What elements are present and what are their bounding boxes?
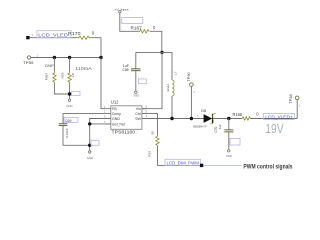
svg-text:GND: GND [112, 117, 120, 121]
svg-text:110mA: 110mA [75, 66, 92, 71]
net label LCD_VLED- [37, 31, 71, 39]
wire [31, 57, 101, 59]
IC U12 TPS61160 [111, 100, 142, 135]
capacitor C70 [214, 119, 234, 150]
svg-text:Gnd_Pad: Gnd_Pad [112, 122, 125, 126]
svg-text:L7: L7 [173, 71, 177, 75]
node LCD_VLED- connection square [26, 36, 29, 39]
IC pins left [104, 106, 125, 127]
svg-text:Vin: Vin [136, 107, 141, 111]
resistor R168 [233, 112, 260, 121]
resistor R167 [131, 25, 157, 33]
net label box (empty) [230, 138, 240, 145]
resistor R23 [60, 72, 75, 83]
test point TP90 [187, 72, 196, 94]
svg-text:5: 5 [146, 110, 148, 113]
wire [213, 118, 241, 120]
resistor R24 [148, 131, 160, 157]
wire [190, 86, 192, 118]
svg-text:DNP: DNP [45, 64, 54, 68]
junction [170, 117, 173, 120]
svg-text:0: 0 [153, 25, 156, 30]
node LCD_DIM_PWM square [200, 164, 203, 167]
diode D8 [193, 109, 216, 128]
svg-text:R367: R367 [45, 73, 49, 81]
ground [226, 150, 232, 159]
svg-text:R167: R167 [131, 25, 143, 30]
ground [87, 151, 93, 160]
junction [99, 56, 102, 59]
resistor R367 [45, 64, 57, 83]
svg-text:B0530W-7-F: B0530W-7-F [193, 124, 207, 128]
svg-text:19V: 19V [265, 122, 284, 136]
svg-text:Ctrl: Ctrl [135, 112, 141, 116]
svg-text:LCD_VLED-: LCD_VLED- [38, 33, 70, 39]
capacitor C68 [122, 64, 140, 72]
svg-text:GND: GND [87, 156, 93, 160]
junction [53, 56, 56, 59]
svg-text:TP58: TP58 [289, 94, 293, 104]
svg-text:C69: C69 [65, 119, 71, 123]
svg-text:C70: C70 [214, 126, 218, 132]
wire [136, 52, 162, 91]
wire GND/Gnd_Pad [90, 119, 111, 151]
svg-text:0: 0 [92, 31, 95, 36]
ground [133, 91, 139, 97]
svg-text:GND: GND [66, 104, 72, 108]
svg-text:4: 4 [146, 115, 148, 118]
svg-text:TP90: TP90 [187, 72, 191, 82]
resistor R170 [68, 31, 95, 40]
svg-text:PWM control signals: PWM control signals [243, 164, 293, 171]
wire Vin [142, 52, 162, 108]
svg-text:+: + [197, 113, 199, 117]
svg-text:GND: GND [133, 93, 139, 97]
svg-text:1: 1 [193, 91, 195, 94]
capacitor C69 [59, 117, 78, 137]
svg-text:R168: R168 [233, 112, 243, 117]
net label box (empty) [91, 140, 99, 145]
IC pins right [135, 105, 147, 121]
wire Ctrl [142, 114, 200, 166]
net label box (empty) [122, 18, 143, 24]
svg-text:Comp: Comp [112, 112, 121, 116]
svg-text:R24: R24 [148, 151, 152, 157]
wire [251, 100, 298, 119]
ground [66, 99, 72, 108]
wire Comp [63, 114, 106, 146]
svg-text:0: 0 [256, 112, 259, 117]
leader line [203, 164, 241, 166]
junction [227, 117, 230, 120]
junction [160, 51, 163, 54]
svg-text:R23: R23 [60, 72, 64, 78]
svg-text:6: 6 [146, 105, 148, 108]
power +V_Input [114, 8, 128, 13]
test point TP58 [289, 94, 301, 107]
wire [162, 52, 172, 118]
junction [68, 56, 71, 59]
svg-text:1: 1 [298, 104, 300, 107]
net label LCD_VLED+ [264, 114, 295, 121]
svg-text:1.8: 1.8 [71, 73, 75, 78]
svg-text:FB: FB [112, 107, 117, 111]
svg-text:TPS61160: TPS61160 [112, 130, 136, 135]
wire [120, 13, 162, 53]
svg-text:TP59: TP59 [23, 61, 34, 65]
test point TP59 [23, 55, 39, 66]
svg-text:50: 50 [150, 131, 154, 135]
net label LCD_DIM_PWM [165, 159, 200, 165]
svg-text:C68: C68 [122, 68, 128, 72]
wire FB [101, 58, 106, 109]
svg-text:22uH: 22uH [166, 84, 170, 91]
wire [54, 58, 69, 100]
svg-text:0.22uF: 0.22uF [65, 128, 69, 138]
junction [68, 92, 71, 95]
svg-text:LCD_VLED+: LCD_VLED+ [265, 114, 293, 120]
net label box (empty) [72, 92, 81, 96]
wire [30, 38, 101, 58]
svg-text:R170: R170 [68, 31, 81, 36]
svg-text:D8: D8 [201, 109, 206, 113]
wire SW [142, 118, 204, 120]
svg-text:U12: U12 [111, 100, 119, 105]
svg-text:1: 1 [32, 34, 34, 37]
svg-text:SW: SW [135, 117, 141, 121]
svg-text:1uF: 1uF [218, 124, 222, 129]
inductor L7 [166, 71, 177, 96]
junction [88, 122, 91, 125]
svg-text:LCD_DIM_PWM: LCD_DIM_PWM [166, 160, 199, 165]
junction [88, 144, 91, 147]
junction [190, 117, 193, 120]
svg-text:+V_Input: +V_Input [114, 8, 128, 12]
net label box (empty) [138, 79, 146, 84]
svg-text:GND: GND [226, 154, 232, 158]
